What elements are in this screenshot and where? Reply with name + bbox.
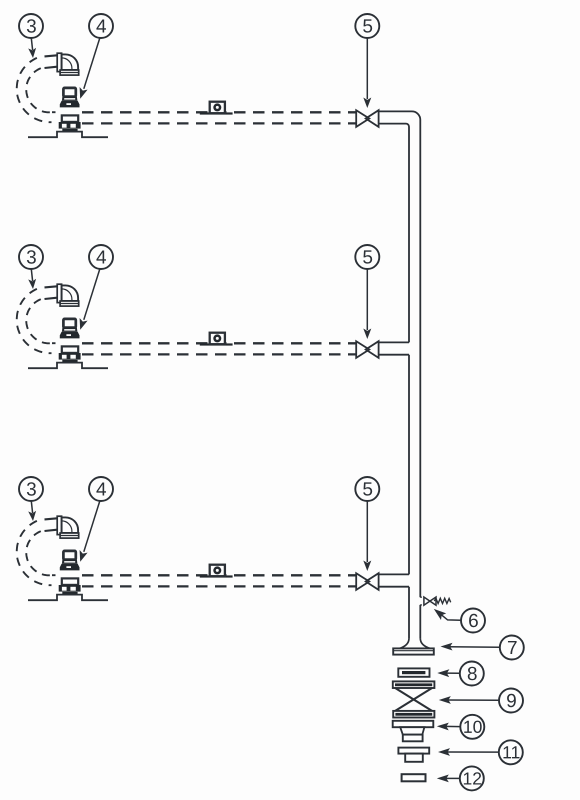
pipe clamp on deck (row 3) [200,565,233,578]
branch pipe row 3 to riser [379,574,409,586]
lower dashed pipe line (row 1) [82,122,356,124]
mounting socket fitting under nozzle (row 3) [59,578,81,594]
lower dashed pipe line (row 3) [82,585,356,587]
base plate item 7 [393,648,434,654]
branch pipe row 2 to riser [379,342,409,354]
riser pipe right/outer line [379,111,420,638]
deck line with raised plinth (row 3) [28,595,108,601]
arrow for item 7 [441,643,500,651]
upper dashed pipe line (row 2) [82,342,356,344]
lower dashed pipe line (row 2) [82,353,356,355]
valve body item 9 [393,681,435,717]
callout circle 4 (row 2) [89,245,113,269]
callout circle 3 (row 2) [19,245,43,269]
arrow for item 8 [437,669,460,677]
arrow for item 3 (row 2) [28,269,36,289]
callout circle 4 (row 1) [89,14,113,38]
adapter item 10 [393,721,434,742]
arrow for item 3 (row 3) [28,501,36,521]
callout circle 8 [460,662,484,686]
upper dashed pipe line (row 3) [82,574,356,576]
callout circle 4 (row 3) [89,477,113,501]
deck line with raised plinth (row 2) [28,363,108,369]
sprinkler nozzle item 4 (row 1) [60,88,80,108]
arrow for item 3 (row 1) [28,38,36,58]
flexible hose item 3, dashed (row 1) [17,58,56,122]
callout circle 10 [460,715,484,739]
arrow for item 6 [434,609,461,620]
reducer item 11 [398,748,429,762]
flexible hose item 3, dashed (row 3) [17,521,56,585]
drain valve item 6 [424,597,436,605]
callout circle 11 [499,740,523,764]
arrow for item 4 (row 3) [80,501,100,562]
arrow for item 12 [437,775,460,783]
arrow for item 5 (row 2) [363,269,371,339]
callout circle 5 (row 1) [355,14,379,38]
arrow for item 5 (row 3) [363,501,371,571]
arrow for item 9 [439,696,499,704]
deck line with raised plinth (row 1) [28,132,108,138]
riser base flare [399,638,431,648]
sprinkler nozzle item 4 (row 2) [60,319,80,339]
callout circle 5 (row 3) [355,477,379,501]
callout circle 3 (row 3) [19,477,43,501]
gasket item 8 [398,668,429,676]
arrow for item 11 [438,748,499,756]
flexible whip / squiggle after valve 6 [434,598,450,603]
shut-off valve item 5 (row 2) [356,341,378,358]
arrow for item 5 (row 1) [363,38,371,108]
upper dashed pipe line (row 1) [82,111,356,113]
callout circle 3 (row 1) [19,14,43,38]
arrow for item 10 [437,723,460,731]
arrow for item 4 (row 2) [80,269,100,330]
callout circle 12 [460,766,484,790]
callout circle 6 [461,609,485,633]
pipe clamp on deck (row 1) [200,102,233,115]
pipe clamp on deck (row 2) [200,333,233,346]
shut-off valve item 5 (row 3) [356,573,378,590]
pipe elbow fitting (row 1) [45,53,79,75]
pipe elbow fitting (row 2) [45,284,79,306]
drain valve item 6 stubs [420,597,422,605]
callout circle 9 [499,689,523,713]
shut-off valve item 5 (row 1) [356,110,378,127]
arrow for item 4 (row 1) [80,38,100,99]
sprinkler nozzle item 4 (row 3) [60,551,80,571]
callout circle 5 (row 2) [355,245,379,269]
plug item 12 [402,774,426,781]
mounting socket fitting under nozzle (row 2) [59,346,81,362]
callout circle 7 [500,636,524,660]
riser pipe left/inner line [379,124,409,639]
flexible hose item 3, dashed (row 2) [17,289,56,353]
pipe elbow fitting (row 3) [45,516,79,538]
mounting socket fitting under nozzle (row 1) [59,115,81,131]
